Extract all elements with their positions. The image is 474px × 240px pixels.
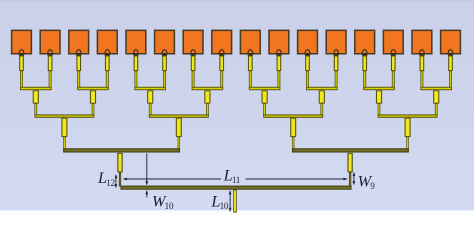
wire: matching stub below P1 (19, 56, 24, 71)
wire: matching stub below P2 (48, 56, 53, 71)
patch P3 (69, 30, 89, 53)
wire: matching stub below P14 (391, 56, 396, 71)
wire: quarter-wave transformer of J2-1 (61, 118, 67, 137)
wire: matching stub below P15 (420, 56, 425, 71)
wire: feed line P10 to 1st combiner (277, 71, 280, 89)
dimension arrow L12 (115, 175, 117, 187)
patch P6 (155, 30, 175, 53)
wire: 1st-level combiner bar J1-5 (249, 87, 281, 90)
wire: line J2-4 to 3rd combiner (406, 137, 409, 151)
wire: matching stub below P4 (105, 56, 110, 71)
wire: feed line P16 to 1st combiner (449, 71, 452, 89)
feed point ellipse of P4 (105, 53, 110, 57)
dimension arrow W9 (353, 173, 355, 184)
wire: 1st-level combiner bar J1-8 (420, 87, 452, 90)
wire: matching stub below P13 (362, 56, 367, 71)
feed point ellipse of P15 (420, 53, 425, 57)
wire: feed line P9 to 1st combiner (249, 71, 252, 89)
wire: matching stub below P5 (134, 56, 139, 71)
wire: feed line P8 to 1st combiner (220, 71, 223, 89)
patch P4 (97, 30, 117, 53)
wire: quarter-wave transformer of J1-4 (204, 90, 210, 103)
feed point ellipse of P9 (248, 53, 253, 57)
wire: quarter-wave transformer of J1-5 (262, 90, 268, 103)
feed point ellipse of P1 (19, 53, 24, 56)
wire: 2nd-level combiner bar J2-1 (34, 114, 94, 117)
wire: quarter-wave transformer of J1-2 (90, 90, 96, 103)
wire: line J1-8 to 2nd combiner (435, 103, 438, 116)
wire: quarter-wave transformer of J1-3 (147, 90, 153, 103)
wire: feed line P15 to 1st combiner (420, 71, 423, 89)
feed point ellipse of P5 (134, 53, 139, 56)
wire: line J2-1 to 3rd combiner (63, 137, 66, 151)
wire: matching stub below P7 (191, 56, 196, 71)
patch P1 (12, 30, 32, 53)
wire: 1st-level combiner bar J1-2 (77, 87, 109, 90)
wire: line J2-2 to 3rd combiner (178, 137, 181, 151)
wire: quarter-wave transformer of J1-6 (319, 90, 325, 103)
wire: feed line P2 to 1st combiner (49, 71, 52, 89)
wire: matching stub below P11 (305, 56, 310, 71)
patch P14 (383, 30, 403, 53)
wire: matching stub below P16 (448, 56, 453, 71)
patch P15 (412, 30, 432, 53)
wire: feed line P5 to 1st combiner (134, 71, 137, 89)
wire: feed line P6 to 1st combiner (163, 71, 166, 89)
wire: matching stub below P9 (248, 56, 253, 71)
wire: matching stub below P10 (277, 56, 282, 71)
dimension arrow L10 (229, 192, 231, 211)
wire: narrow line J3-2 to main line (349, 172, 351, 187)
wire: matching stub below P3 (76, 56, 81, 71)
wire: 1st-level combiner bar J1-6 (306, 87, 338, 90)
patch P11 (298, 30, 318, 53)
wire: feed line P14 to 1st combiner (392, 71, 395, 89)
feed point ellipse of P3 (76, 53, 81, 57)
wire: feed line P4 to 1st combiner (106, 71, 109, 89)
dimension arrow W10 (146, 153, 148, 184)
wire: 3rd-level combiner bar J3-1 (63, 148, 180, 152)
feed point ellipse of P13 (362, 53, 367, 57)
patch P2 (40, 30, 60, 53)
feed point ellipse of P10 (277, 53, 282, 57)
wire: quarter-wave transformer of J1-1 (33, 90, 39, 103)
feed point ellipse of P14 (391, 53, 396, 57)
patch P8 (212, 30, 232, 53)
wire: narrow line J3-1 to main line (119, 172, 121, 187)
feed point ellipse of P2 (48, 53, 53, 57)
feed point ellipse of P8 (219, 53, 224, 57)
feed point ellipse of P6 (162, 53, 167, 57)
wire: line J1-5 to 2nd combiner (263, 103, 266, 116)
feed point ellipse of P16 (448, 53, 453, 56)
feed point ellipse of P7 (191, 53, 196, 56)
wire: feed line P12 to 1st combiner (335, 71, 338, 89)
feed point ellipse of P11 (305, 53, 310, 56)
wire: 1st-level combiner bar J1-1 (20, 87, 52, 90)
wire: 2nd-level combiner bar J2-3 (263, 114, 323, 117)
wire: feed line P13 to 1st combiner (363, 71, 366, 89)
wire: bright stub below J3-1 (length L12/W9) (117, 153, 122, 172)
wire: 1st-level combiner bar J1-7 (363, 87, 395, 90)
patch P10 (269, 30, 289, 53)
patch P13 (355, 30, 375, 53)
wire: feed line P1 to 1st combiner (20, 71, 23, 89)
patch P5 (126, 30, 146, 53)
wire: quarter-wave transformer of J1-7 (376, 90, 382, 103)
patch P7 (183, 30, 203, 53)
wire: line J1-1 to 2nd combiner (34, 103, 37, 116)
patch P16 (441, 30, 461, 53)
wire: line J1-3 to 2nd combiner (149, 103, 152, 116)
wire: quarter-wave transformer of J2-4 (405, 118, 411, 137)
wire: feed line P7 to 1st combiner (192, 71, 195, 89)
wire: 2nd-level combiner bar J2-2 (149, 114, 209, 117)
wire: quarter-wave transformer of J1-8 (433, 90, 439, 103)
wire: 3rd-level combiner bar J3-2 (292, 148, 409, 152)
wire: 1st-level combiner bar J1-3 (134, 87, 166, 90)
wire: 2nd-level combiner bar J2-4 (378, 114, 438, 117)
wire: input feed line L10 (233, 190, 237, 213)
top shadow strip (0, 0, 474, 2)
wire: line J1-7 to 2nd combiner (378, 103, 381, 116)
wire: line J1-2 to 2nd combiner (92, 103, 95, 116)
patch P12 (326, 30, 346, 53)
wire: feed line P11 to 1st combiner (306, 71, 309, 89)
bottom white margin strip (0, 211, 474, 216)
wire: feed line P3 to 1st combiner (77, 71, 80, 89)
wire: 1st-level combiner bar J1-4 (192, 87, 224, 90)
wire: main feed line (L11) (120, 186, 351, 190)
wire: line J2-3 to 3rd combiner (292, 137, 295, 151)
wire: line J1-4 to 2nd combiner (206, 103, 209, 116)
wire: quarter-wave transformer of J2-3 (290, 118, 296, 137)
wire: matching stub below P6 (162, 56, 167, 71)
wire: matching stub below P8 (219, 56, 224, 71)
wire: quarter-wave transformer of J2-2 (176, 118, 182, 137)
wire: matching stub below P12 (334, 56, 339, 71)
patch P9 (240, 30, 260, 53)
dimension arrow L11 (124, 178, 221, 180)
wire: line J1-6 to 2nd combiner (320, 103, 323, 116)
wire: bright stub below J3-2 (length L12/W9) (347, 153, 352, 172)
feed point ellipse of P12 (334, 53, 339, 57)
